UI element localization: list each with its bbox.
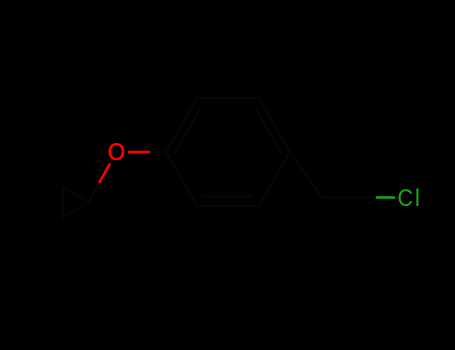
wire CH2-CH2 — [322, 196, 357, 198]
double bond inner line C3=C4 — [255, 108, 282, 154]
wire O-CH black half — [89, 183, 100, 202]
double bond inner line C1=C2 — [175, 108, 202, 154]
svg-text:O: O — [108, 139, 125, 166]
double bond inner line C5=C6 — [202, 195, 253, 197]
wire CH2-Cl green half — [376, 196, 395, 199]
wire O-CH red half — [99, 164, 110, 184]
cyclopropyl ring — [63, 188, 89, 218]
wire C4-CH2 — [290, 152, 322, 198]
svg-text:l: l — [415, 185, 420, 212]
wire CH2-Cl black half — [357, 196, 376, 198]
wire O-C1 black half — [150, 151, 166, 153]
svg-text:C: C — [398, 185, 414, 212]
benzene ring C1-C6 — [166, 98, 290, 205]
wire O-C1 red half — [128, 151, 150, 154]
